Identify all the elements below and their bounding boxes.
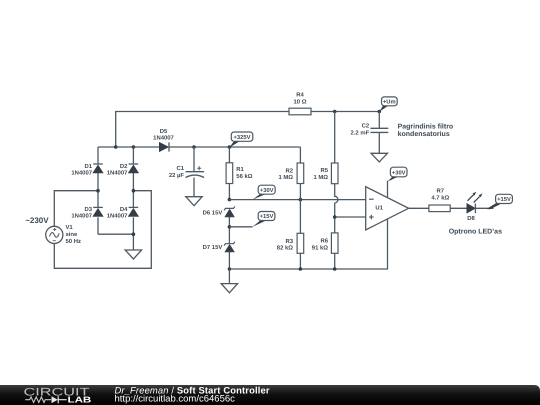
svg-text:1N4007: 1N4007: [153, 135, 174, 142]
wire AC right bridge to loop: [54, 191, 151, 269]
svg-text:R4: R4: [296, 92, 304, 99]
zener D7: [203, 227, 235, 269]
svg-text:Pagrindinis filtro: Pagrindinis filtro: [398, 122, 454, 130]
footer logo resistor zigzag: [25, 397, 51, 403]
svg-text:82 kΩ: 82 kΩ: [277, 245, 293, 252]
node dot D6/D7: [228, 225, 232, 229]
resistor R7: [429, 188, 450, 212]
svg-text:Optrono LED’as: Optrono LED’as: [449, 228, 502, 235]
svg-text:91 kΩ: 91 kΩ: [312, 245, 328, 252]
node dot C1 top: [192, 145, 196, 149]
node dot R5 top: [333, 110, 337, 114]
ground C1: [186, 197, 202, 206]
svg-text:R2: R2: [285, 167, 293, 174]
svg-text:D2: D2: [120, 163, 128, 170]
flag +325V: [229, 132, 252, 148]
diode D3: [71, 206, 103, 220]
wire plus rail: [335, 216, 366, 218]
node dot D2 top: [132, 145, 136, 149]
flag +15V at zener: [253, 212, 275, 227]
flag +Um: [379, 97, 397, 112]
svg-text:C1: C1: [176, 165, 184, 172]
resistor R4: [289, 108, 311, 115]
node dot R3 bottom: [299, 267, 303, 271]
wire D7 ground stub: [228, 269, 230, 284]
svg-text:V1: V1: [66, 224, 74, 231]
diode D5: [153, 128, 174, 152]
wire D1 column: [97, 147, 99, 234]
svg-text:1 MΩ: 1 MΩ: [313, 174, 328, 181]
svg-text:sine: sine: [66, 231, 79, 238]
node dot R2/R3: [299, 198, 303, 202]
node dot R5/R6: [333, 215, 337, 219]
svg-text:22 µF: 22 µF: [169, 172, 185, 179]
wire +325V rail y=147: [98, 146, 300, 148]
ground bridge: [125, 250, 141, 259]
svg-text:+30V: +30V: [392, 169, 406, 176]
resistor R5 with hop over minus rail: [313, 112, 338, 218]
wire +15V stub: [229, 226, 252, 228]
node dot bridge bottom: [132, 232, 136, 236]
wire bridge bottom rail: [98, 234, 133, 250]
resistor R6: [312, 217, 338, 269]
svg-text:kondensatorius: kondensatorius: [398, 130, 450, 138]
svg-text:+Um: +Um: [383, 100, 396, 106]
svg-text:R6: R6: [320, 238, 328, 245]
svg-text:R5: R5: [320, 167, 328, 174]
capacitor C1: [169, 147, 204, 197]
svg-text:R7: R7: [437, 188, 445, 195]
svg-text:D6 15V: D6 15V: [203, 210, 223, 217]
wire top rail from bridge to +Um node: [116, 112, 380, 148]
svg-text:D3: D3: [84, 206, 92, 213]
svg-text:D8: D8: [467, 215, 475, 222]
svg-text:4.7 kΩ: 4.7 kΩ: [431, 195, 449, 202]
diode D1: [71, 163, 103, 177]
ground main: [221, 284, 237, 293]
diode D4: [107, 206, 139, 220]
wire op-amp output: [409, 207, 494, 209]
svg-text:+30V: +30V: [260, 187, 274, 194]
op-amp U1: [366, 181, 409, 230]
node dot D7/ground rail: [228, 267, 232, 271]
zener D6: [203, 206, 235, 226]
svg-text:LAB: LAB: [68, 394, 92, 404]
wire minus rail: [229, 199, 365, 201]
ground C2: [371, 153, 387, 162]
resistor R1: [226, 147, 253, 200]
wire AC left from V1 to bridge: [54, 191, 98, 227]
svg-text:U1: U1: [375, 205, 383, 212]
svg-text:D1: D1: [84, 163, 92, 170]
svg-text:56 kΩ: 56 kΩ: [236, 173, 252, 180]
svg-text:C2: C2: [362, 123, 370, 130]
flag +30V at R1: [252, 185, 275, 200]
svg-text:~230V: ~230V: [25, 216, 49, 225]
wire bottom rail: [229, 220, 387, 270]
svg-text:R1: R1: [236, 166, 244, 173]
svg-text:1N4007: 1N4007: [107, 170, 128, 177]
capacitor C2: [351, 112, 389, 154]
svg-text:1 MΩ: 1 MΩ: [278, 174, 293, 181]
resistor R2: [278, 147, 303, 200]
resistor R3: [277, 200, 304, 269]
svg-text:+15V: +15V: [497, 197, 511, 203]
diode D2: [107, 163, 139, 177]
wire D2 column: [132, 147, 134, 234]
node dot R1/D6: [228, 198, 232, 202]
svg-text:10 Ω: 10 Ω: [294, 99, 307, 106]
svg-text:1N4007: 1N4007: [71, 213, 92, 220]
svg-text:D7 15V: D7 15V: [203, 244, 223, 251]
node dot R6 bottom: [333, 267, 337, 271]
source V1: [46, 224, 81, 245]
svg-text:+15V: +15V: [260, 214, 274, 220]
node dot R1 top: [228, 145, 232, 149]
svg-text:D5: D5: [160, 128, 168, 135]
node dot D2/D4: [132, 189, 136, 193]
svg-text:http://circuitlab.com/c64656c: http://circuitlab.com/c64656c: [115, 392, 236, 403]
LED D8: [467, 192, 483, 222]
svg-text:1N4007: 1N4007: [107, 213, 128, 220]
svg-text:1N4007: 1N4007: [71, 170, 92, 177]
flag +30V at op-amp: [388, 167, 407, 181]
svg-text:+325V: +325V: [234, 134, 251, 141]
node dot D1/D3: [96, 189, 100, 193]
footer logo diode: [52, 396, 58, 403]
svg-text:D4: D4: [120, 206, 128, 213]
footer bar: [0, 385, 540, 405]
svg-text:50 Hz: 50 Hz: [66, 238, 81, 245]
svg-text:R3: R3: [285, 238, 293, 245]
svg-text:2.2 mF: 2.2 mF: [351, 129, 370, 136]
node dot top-left rail: [114, 145, 118, 149]
flag +15V at LED: [487, 194, 513, 209]
node dot +Um: [378, 110, 382, 114]
